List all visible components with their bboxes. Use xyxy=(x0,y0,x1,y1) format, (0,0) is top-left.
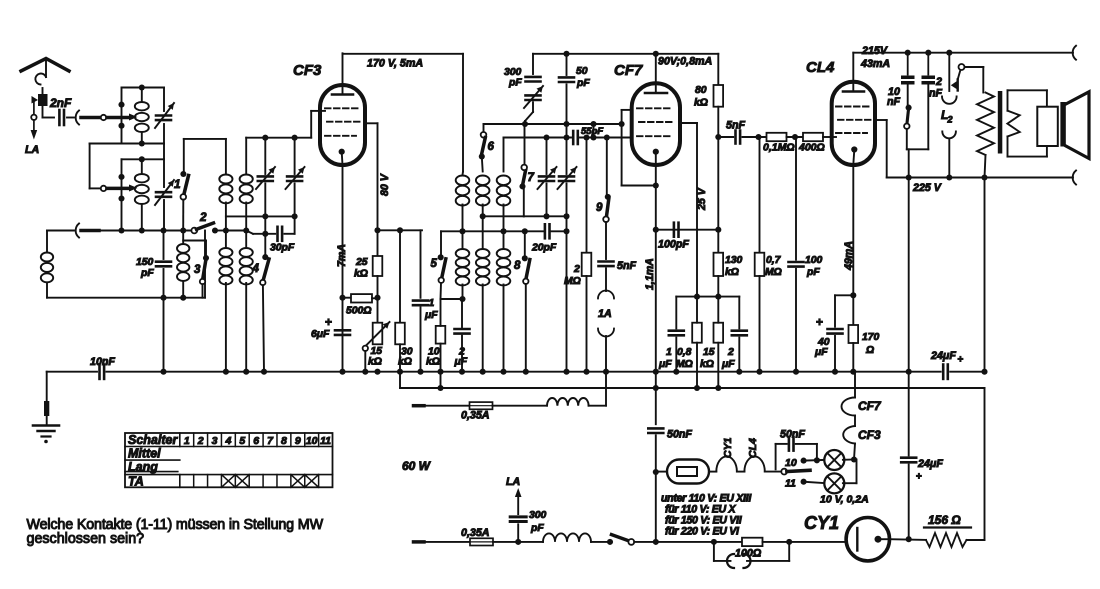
svg-text:TA: TA xyxy=(128,475,144,489)
svg-text:8: 8 xyxy=(514,260,521,272)
svg-text:50nF: 50nF xyxy=(780,429,805,441)
svg-text:CF3: CF3 xyxy=(293,62,322,79)
svg-text:15: 15 xyxy=(703,347,715,358)
svg-text:geschlossen sein?: geschlossen sein? xyxy=(27,531,145,547)
svg-text:Lang: Lang xyxy=(128,460,158,474)
svg-text:Ω: Ω xyxy=(865,345,874,356)
svg-text:6: 6 xyxy=(488,141,495,153)
svg-text:5: 5 xyxy=(239,435,245,447)
svg-text:MΩ: MΩ xyxy=(765,267,782,278)
svg-text:pF: pF xyxy=(140,268,154,279)
svg-text:1,1mA: 1,1mA xyxy=(644,258,656,290)
svg-text:kΩ: kΩ xyxy=(426,357,440,368)
svg-text:+: + xyxy=(816,315,823,329)
svg-text:24μF: 24μF xyxy=(917,458,943,470)
svg-text:kΩ: kΩ xyxy=(354,269,368,280)
svg-text:μF: μF xyxy=(454,357,468,368)
svg-text:300: 300 xyxy=(504,67,522,78)
svg-text:24μF: 24μF xyxy=(930,350,956,362)
svg-text:1: 1 xyxy=(174,177,181,191)
svg-text:156 Ω: 156 Ω xyxy=(928,513,961,527)
svg-text:2: 2 xyxy=(935,76,942,88)
svg-text:10nF: 10nF xyxy=(90,356,115,368)
svg-text:1A: 1A xyxy=(598,308,612,320)
svg-text:10: 10 xyxy=(306,435,318,447)
svg-text:11: 11 xyxy=(785,478,796,490)
svg-text:μF: μF xyxy=(658,359,672,370)
svg-text:6μF: 6μF xyxy=(311,329,330,340)
svg-text:μF: μF xyxy=(814,347,828,358)
svg-text:CF3: CF3 xyxy=(858,428,881,442)
svg-text:9: 9 xyxy=(295,435,301,447)
svg-text:CL4: CL4 xyxy=(747,438,759,458)
svg-text:11: 11 xyxy=(320,435,331,447)
svg-text:215V: 215V xyxy=(861,45,888,57)
svg-text:90V;0,8mA: 90V;0,8mA xyxy=(658,56,712,68)
svg-text:CY1: CY1 xyxy=(804,513,839,533)
svg-text:für 220 V: EU VI: für 220 V: EU VI xyxy=(665,526,740,538)
svg-text:10: 10 xyxy=(785,457,797,469)
svg-text:kΩ: kΩ xyxy=(725,267,739,278)
svg-text:kΩ: kΩ xyxy=(368,357,382,368)
svg-text:5nF: 5nF xyxy=(726,120,745,132)
svg-text:2: 2 xyxy=(947,115,953,125)
svg-text:kΩ: kΩ xyxy=(694,98,708,109)
svg-text:0,35A: 0,35A xyxy=(461,527,490,539)
svg-text:50: 50 xyxy=(576,66,588,77)
svg-text:5nF: 5nF xyxy=(617,260,636,272)
svg-text:8: 8 xyxy=(281,435,287,447)
svg-text:μF: μF xyxy=(424,310,438,321)
svg-text:400Ω: 400Ω xyxy=(798,142,825,154)
svg-text:+: + xyxy=(916,472,922,483)
svg-text:pF: pF xyxy=(508,78,522,89)
svg-text:nF: nF xyxy=(887,96,901,108)
svg-text:MΩ: MΩ xyxy=(564,276,581,287)
svg-text:2: 2 xyxy=(199,210,207,224)
svg-text:kΩ: kΩ xyxy=(398,357,412,368)
svg-text:225 V: 225 V xyxy=(912,182,942,194)
svg-text:MΩ: MΩ xyxy=(676,359,693,370)
svg-text:6: 6 xyxy=(253,435,259,447)
svg-text:100pF: 100pF xyxy=(658,239,689,251)
svg-text:pF: pF xyxy=(576,78,590,89)
svg-text:50nF: 50nF xyxy=(667,429,692,441)
svg-text:CF7: CF7 xyxy=(858,399,882,413)
svg-text:500Ω: 500Ω xyxy=(346,306,371,317)
svg-text:0,7: 0,7 xyxy=(766,255,782,266)
svg-text:30pF: 30pF xyxy=(270,243,295,254)
svg-text:80 V: 80 V xyxy=(379,173,391,196)
svg-text:4: 4 xyxy=(224,435,231,447)
svg-text:7mA: 7mA xyxy=(336,244,348,267)
svg-text:49mA: 49mA xyxy=(843,241,855,271)
svg-text:LA: LA xyxy=(25,144,39,156)
svg-text:CF7: CF7 xyxy=(614,62,643,79)
svg-text:170: 170 xyxy=(862,332,880,343)
svg-text:pF: pF xyxy=(530,523,544,534)
svg-text:60 W: 60 W xyxy=(402,459,432,473)
svg-text:kΩ: kΩ xyxy=(700,359,714,370)
svg-text:130: 130 xyxy=(725,255,743,266)
svg-text:nF: nF xyxy=(929,88,943,100)
svg-text:2: 2 xyxy=(197,435,204,447)
svg-text:Mittel: Mittel xyxy=(128,446,161,460)
svg-text:170 V, 5mA: 170 V, 5mA xyxy=(367,58,423,70)
svg-text:3: 3 xyxy=(194,264,201,276)
svg-text:5: 5 xyxy=(431,258,438,270)
svg-text:4: 4 xyxy=(252,263,260,275)
svg-text:+: + xyxy=(325,315,332,329)
svg-text:100: 100 xyxy=(805,255,823,266)
svg-text:LA: LA xyxy=(506,476,520,488)
svg-text:μF: μF xyxy=(721,359,735,370)
svg-text:0,1MΩ: 0,1MΩ xyxy=(763,142,795,154)
svg-text:300: 300 xyxy=(529,510,547,521)
svg-text:3: 3 xyxy=(212,435,218,447)
svg-text:Schalter: Schalter xyxy=(128,433,178,447)
svg-text:150: 150 xyxy=(136,257,154,268)
svg-text:2: 2 xyxy=(573,264,580,275)
svg-text:2: 2 xyxy=(727,347,734,358)
svg-text:+: + xyxy=(958,355,964,366)
svg-text:10 V, 0,2A: 10 V, 0,2A xyxy=(820,494,869,506)
svg-text:1: 1 xyxy=(666,347,672,358)
svg-text:1: 1 xyxy=(184,435,190,447)
svg-text:CY1: CY1 xyxy=(722,437,734,458)
svg-text:80: 80 xyxy=(695,85,707,96)
svg-text:7: 7 xyxy=(528,172,535,184)
svg-text:2nF: 2nF xyxy=(49,96,72,110)
svg-text:0,35A: 0,35A xyxy=(461,410,490,422)
svg-text:15: 15 xyxy=(371,346,383,357)
svg-text:20pF: 20pF xyxy=(531,243,557,254)
svg-text:0,8: 0,8 xyxy=(677,347,692,358)
svg-text:pF: pF xyxy=(806,267,820,278)
svg-text:43mA: 43mA xyxy=(860,58,890,70)
svg-text:CL4: CL4 xyxy=(806,59,835,76)
svg-text:1: 1 xyxy=(429,298,435,309)
svg-text:9: 9 xyxy=(596,202,603,214)
svg-text:25: 25 xyxy=(355,257,368,268)
